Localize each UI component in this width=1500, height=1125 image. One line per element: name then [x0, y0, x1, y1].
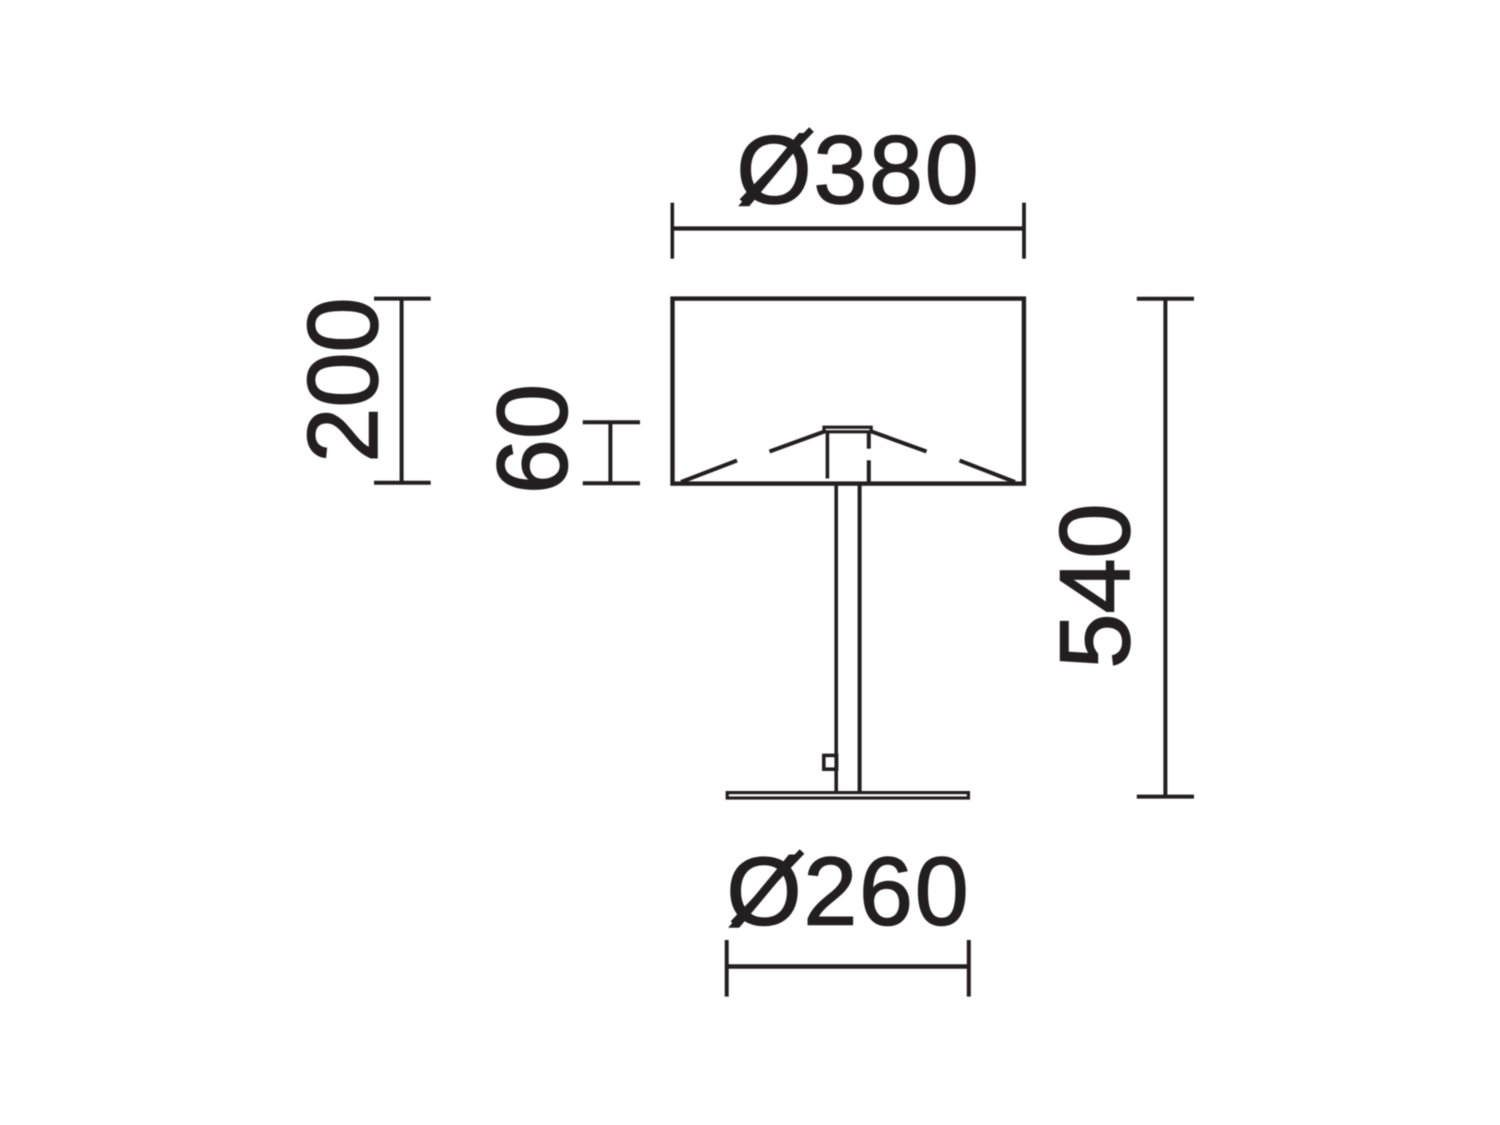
svg-text:540: 540 [1039, 503, 1150, 668]
svg-text:200: 200 [287, 297, 398, 462]
svg-text:60: 60 [476, 384, 587, 494]
